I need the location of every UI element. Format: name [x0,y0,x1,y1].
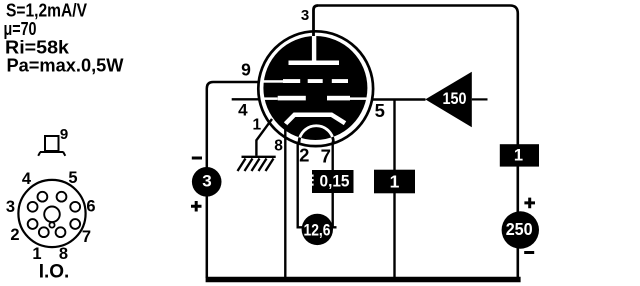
plus sign at HT battery [524,198,535,209]
svg-text:3: 3 [202,172,211,191]
speaker stub wire [472,98,488,100]
speaker horn 150 [425,72,472,127]
grid g2 dashes (white) [263,79,348,83]
socket center hole [44,207,60,223]
stray white ticks at 0,15 box edge [311,175,314,186]
svg-text:2: 2 [299,145,309,166]
HT battery 250 [502,211,539,248]
wire: heater pin 2 down to 12,6 supply [297,142,303,228]
pin 9 top-cap symbol [38,136,65,156]
chassis ground symbol [238,157,276,171]
anode lead (white, inside disc) [312,36,316,62]
minus sign at bias battery [192,157,202,160]
wire: pin 1 lead to chassis ground [256,119,272,156]
tube envelope disc [263,36,367,140]
heater supply 12,6 [302,214,333,245]
socket pin hole 5 [57,192,67,202]
wire: pin 4 stub [232,98,260,100]
svg-text:1: 1 [252,117,261,134]
minus sign at HT battery [524,251,534,254]
svg-text:μ=70: μ=70 [4,19,37,39]
svg-text:0,15: 0,15 [320,173,350,191]
plus sign at bias battery [191,201,202,212]
svg-text:3: 3 [301,7,309,24]
svg-text:5: 5 [68,169,77,187]
socket outer circle [18,180,85,247]
svg-text:Ri=58k: Ri=58k [5,38,70,58]
wire: pin 8 down to bottom rail [284,124,286,278]
svg-text:3: 3 [6,198,15,216]
heater current box 0,15 [312,170,354,193]
svg-text:1: 1 [32,245,41,263]
svg-text:7: 7 [321,145,331,166]
svg-text:12,6: 12,6 [304,220,331,239]
svg-text:9: 9 [60,126,68,143]
heater arc (black outside disc) [299,126,334,143]
svg-text:250: 250 [506,219,533,239]
socket pin hole 7 [70,219,80,229]
heater arc (white inside disc) [299,126,334,143]
socket pin hole 6 [70,202,80,212]
svg-text:9: 9 [241,60,251,80]
svg-text:I.O.: I.O. [39,262,70,283]
wire: right rail through resistor to battery [516,145,519,212]
svg-text:2: 2 [10,226,19,244]
screen resistor 1 (right rail) [500,144,539,166]
socket pin hole 1 [39,227,49,237]
socket pin hole 8 [56,227,66,237]
svg-text:150: 150 [443,89,467,108]
wire: heater pin 7 down through 0,15 to 12,6 supply [331,142,337,228]
socket pin hole 2 [28,219,38,229]
grid g1 / beam plate row (white) [263,96,368,101]
svg-text:4: 4 [238,101,248,120]
anode load resistor 1 [374,170,415,194]
svg-text:5: 5 [375,100,385,121]
svg-text:1: 1 [390,172,400,192]
svg-text:7: 7 [82,228,91,246]
socket keyway notch [49,222,54,227]
wire: speaker branch down through anode resistor [393,100,395,280]
wire: grid lead with left branch down to bias battery [207,82,260,278]
wire: anode top lead from tube to HT rail [314,6,319,38]
wire: pin 5 anode-row lead to speaker [371,98,426,100]
socket pin hole 3 [28,202,38,212]
wire: battery minus to bottom rail [516,246,519,279]
socket pin hole 4 [38,192,48,202]
svg-text:Pa=max.0,5W: Pa=max.0,5W [7,56,124,76]
cathode chevron (white) [286,115,346,124]
wire: top HT rail [318,6,518,146]
svg-text:8: 8 [59,245,68,263]
svg-text:8: 8 [274,138,283,155]
wire: bottom ground rail (thick) [206,277,521,283]
svg-text:1: 1 [514,147,523,165]
bias battery 3V [192,167,222,197]
svg-text:6: 6 [86,198,95,216]
tube envelope outline circle [258,31,373,146]
svg-text:4: 4 [22,170,32,188]
anode bar (white) [289,61,340,66]
svg-text:S=1,2mA/V: S=1,2mA/V [6,1,87,21]
